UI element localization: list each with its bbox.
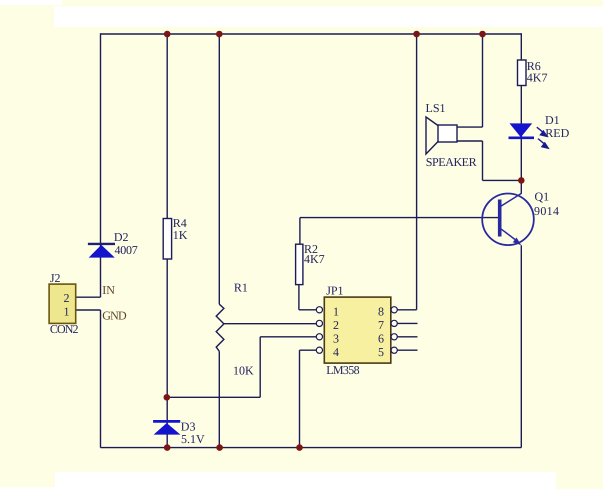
svg-text:D2: D2 bbox=[114, 230, 129, 244]
svg-text:1K: 1K bbox=[173, 228, 188, 242]
svg-text:JP1: JP1 bbox=[326, 284, 343, 298]
svg-text:3: 3 bbox=[333, 331, 339, 345]
svg-text:4K7: 4K7 bbox=[527, 70, 548, 84]
svg-text:7: 7 bbox=[378, 318, 384, 332]
svg-text:Q1: Q1 bbox=[535, 190, 550, 204]
svg-text:5: 5 bbox=[378, 345, 384, 359]
svg-text:CON2: CON2 bbox=[50, 322, 79, 336]
svg-text:4: 4 bbox=[333, 345, 339, 359]
svg-text:1: 1 bbox=[64, 305, 70, 319]
svg-text:SPEAKER: SPEAKER bbox=[426, 155, 477, 169]
svg-text:LS1: LS1 bbox=[426, 101, 446, 115]
svg-text:LM358: LM358 bbox=[326, 363, 359, 377]
svg-text:10K: 10K bbox=[233, 363, 254, 377]
svg-text:9014: 9014 bbox=[534, 204, 559, 218]
svg-text:8: 8 bbox=[378, 305, 384, 319]
svg-text:IN: IN bbox=[102, 283, 115, 297]
svg-text:R1: R1 bbox=[234, 280, 248, 294]
svg-text:2: 2 bbox=[64, 291, 70, 305]
svg-text:4007: 4007 bbox=[115, 243, 138, 257]
svg-text:1: 1 bbox=[333, 305, 339, 319]
svg-text:J2: J2 bbox=[50, 271, 61, 285]
svg-text:5.1V: 5.1V bbox=[181, 432, 205, 446]
svg-text:6: 6 bbox=[378, 331, 384, 345]
svg-text:4K7: 4K7 bbox=[304, 252, 325, 266]
svg-text:GND: GND bbox=[102, 309, 127, 323]
svg-text:D1: D1 bbox=[545, 113, 560, 127]
svg-text:2: 2 bbox=[333, 318, 339, 332]
svg-text:RED: RED bbox=[545, 126, 569, 140]
